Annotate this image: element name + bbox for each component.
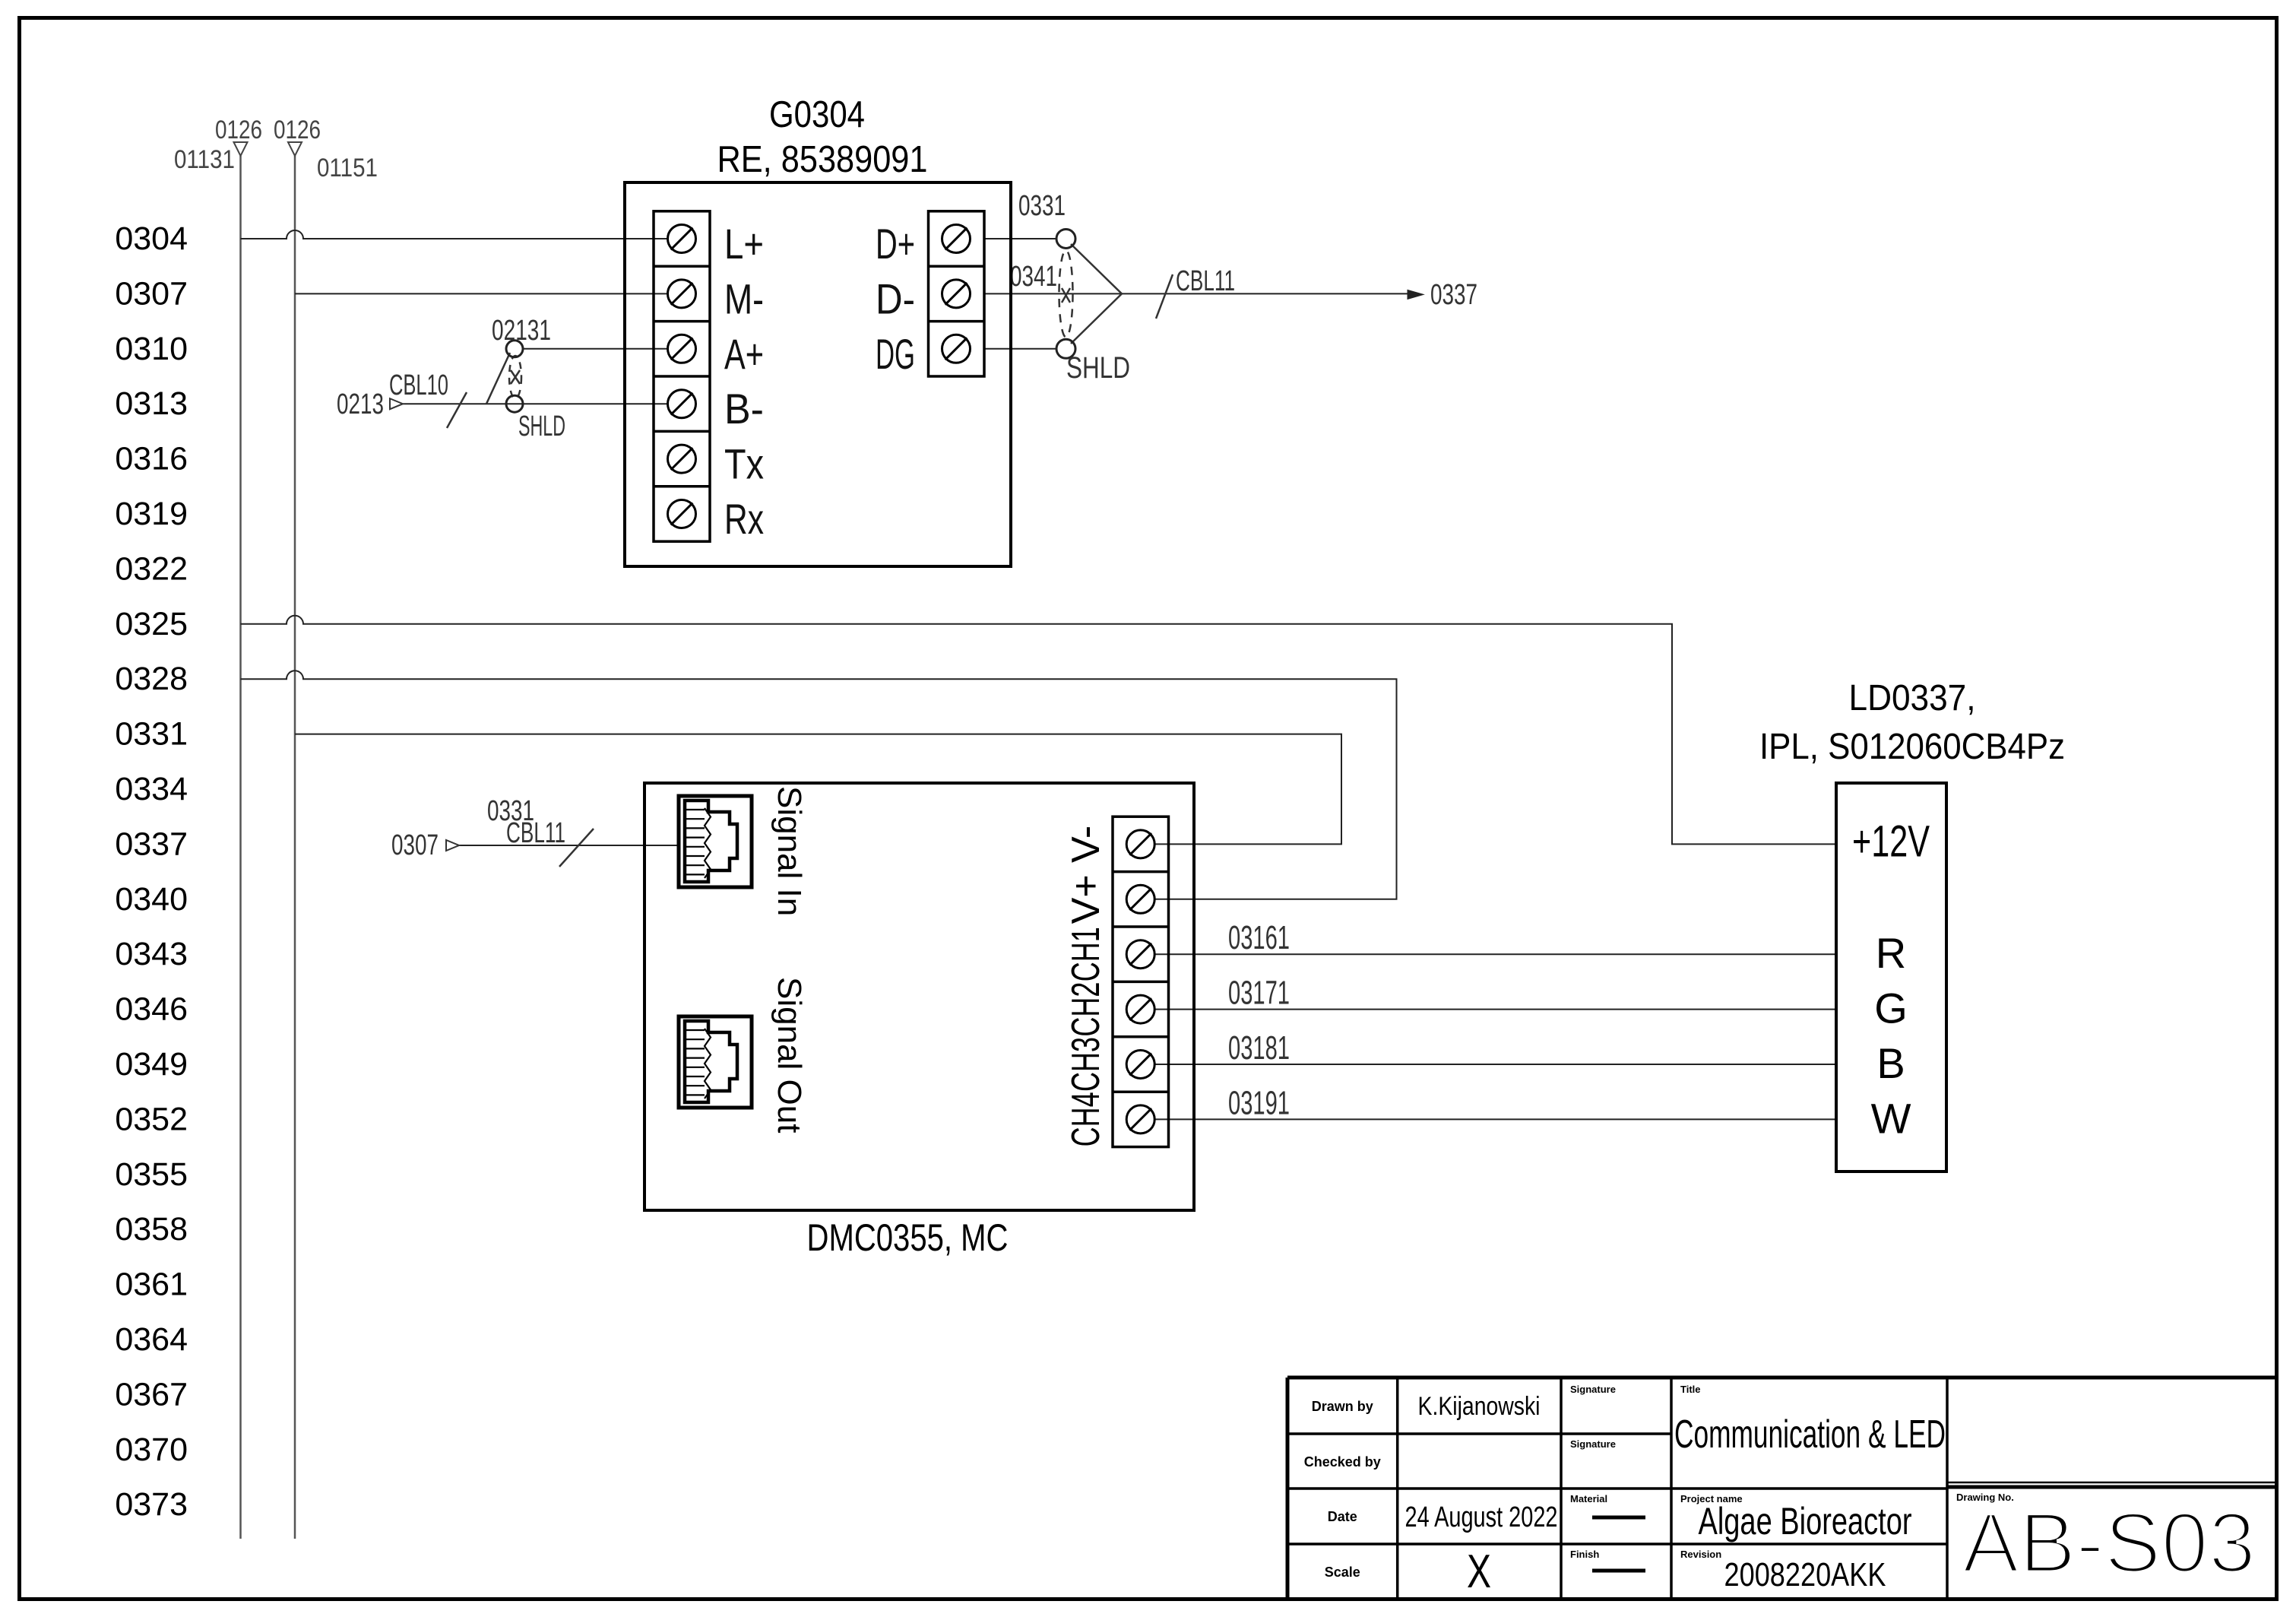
svg-text:Drawn by: Drawn by: [1312, 1399, 1373, 1414]
svg-text:CH2: CH2: [1064, 982, 1108, 1037]
svg-text:SHLD: SHLD: [518, 411, 565, 442]
svg-text:0337: 0337: [115, 826, 188, 862]
svg-text:Algae Bioreactor: Algae Bioreactor: [1699, 1500, 1912, 1542]
svg-text:0331: 0331: [1018, 190, 1066, 222]
svg-text:A+: A+: [724, 330, 764, 378]
svg-text:B-: B-: [724, 385, 764, 433]
svg-text:Checked by: Checked by: [1304, 1454, 1381, 1470]
svg-text:Signal In: Signal In: [771, 786, 808, 916]
svg-text:D-: D-: [876, 274, 915, 322]
svg-text:W: W: [1871, 1094, 1911, 1142]
svg-text:0373: 0373: [115, 1486, 188, 1523]
svg-text:0358: 0358: [115, 1211, 188, 1248]
svg-text:0322: 0322: [115, 550, 188, 587]
svg-text:0337: 0337: [1430, 279, 1477, 311]
svg-text:CBL10: CBL10: [389, 369, 448, 401]
svg-text:CBL11: CBL11: [1176, 265, 1235, 297]
svg-text:Signature: Signature: [1570, 1384, 1616, 1395]
svg-text:03191: 03191: [1228, 1084, 1290, 1121]
svg-text:Communication & LED: Communication & LED: [1674, 1412, 1946, 1457]
svg-text:K.Kijanowski: K.Kijanowski: [1418, 1392, 1541, 1421]
svg-text:0307: 0307: [391, 829, 439, 861]
svg-text:0346: 0346: [115, 991, 188, 1028]
svg-text:0325: 0325: [115, 606, 188, 642]
svg-text:IPL, S012060CB4Pz: IPL, S012060CB4Pz: [1759, 727, 2065, 767]
svg-text:SHLD: SHLD: [1066, 351, 1130, 385]
svg-text:0364: 0364: [115, 1321, 188, 1358]
svg-text:D+: D+: [876, 220, 915, 268]
svg-text:CH3: CH3: [1064, 1037, 1108, 1092]
svg-text:0126: 0126: [215, 116, 262, 144]
svg-text:0349: 0349: [115, 1046, 188, 1083]
svg-text:R: R: [1876, 929, 1906, 977]
svg-text:+12V: +12V: [1852, 816, 1930, 866]
svg-text:DMC0355, MC: DMC0355, MC: [807, 1216, 1009, 1259]
svg-text:M-: M-: [724, 274, 764, 322]
svg-text:Revision: Revision: [1680, 1549, 1721, 1560]
svg-text:Signature: Signature: [1570, 1438, 1616, 1450]
svg-text:CBL11: CBL11: [506, 817, 565, 849]
svg-text:CH1: CH1: [1064, 927, 1108, 981]
svg-text:CH4: CH4: [1064, 1092, 1108, 1146]
svg-text:0343: 0343: [115, 936, 188, 972]
svg-text:G: G: [1874, 984, 1908, 1032]
svg-text:Title: Title: [1680, 1384, 1701, 1395]
svg-text:0352: 0352: [115, 1101, 188, 1137]
svg-text:Finish: Finish: [1570, 1549, 1599, 1560]
svg-text:DG: DG: [876, 330, 915, 378]
svg-text:0334: 0334: [115, 771, 188, 807]
svg-text:0213: 0213: [337, 388, 384, 420]
svg-text:02131: 02131: [492, 315, 551, 347]
svg-text:X: X: [1467, 1546, 1491, 1598]
svg-text:0367: 0367: [115, 1376, 188, 1412]
svg-text:03181: 03181: [1228, 1029, 1290, 1067]
svg-text:Rx: Rx: [724, 495, 764, 543]
svg-text:0361: 0361: [115, 1267, 188, 1303]
svg-text:Material: Material: [1570, 1493, 1607, 1504]
svg-text:2008220AKK: 2008220AKK: [1724, 1556, 1886, 1593]
svg-text:Date: Date: [1328, 1509, 1357, 1524]
svg-text:03161: 03161: [1228, 919, 1290, 956]
svg-text:L+: L+: [724, 220, 764, 268]
svg-text:G0304: G0304: [769, 94, 865, 135]
svg-text:V+: V+: [1064, 874, 1108, 924]
svg-text:AB-S03: AB-S03: [1962, 1495, 2256, 1590]
svg-text:B: B: [1876, 1039, 1905, 1087]
svg-text:24 August 2022: 24 August 2022: [1405, 1501, 1558, 1533]
svg-text:0331: 0331: [115, 716, 188, 753]
svg-text:0126: 0126: [274, 116, 321, 144]
svg-text:Signal Out: Signal Out: [771, 977, 808, 1133]
svg-text:0341: 0341: [1010, 261, 1057, 293]
svg-text:0316: 0316: [115, 441, 188, 477]
svg-text:0355: 0355: [115, 1156, 188, 1193]
svg-text:0328: 0328: [115, 661, 188, 697]
svg-text:0304: 0304: [115, 220, 188, 257]
svg-text:0370: 0370: [115, 1432, 188, 1468]
svg-text:LD0337,: LD0337,: [1849, 678, 1976, 718]
svg-text:Scale: Scale: [1325, 1565, 1360, 1580]
svg-text:03171: 03171: [1228, 975, 1290, 1012]
svg-text:0313: 0313: [115, 385, 188, 422]
svg-text:Tx: Tx: [724, 440, 764, 488]
svg-text:V-: V-: [1064, 826, 1108, 863]
svg-text:0307: 0307: [115, 275, 188, 312]
svg-text:01131: 01131: [174, 145, 235, 174]
svg-text:0319: 0319: [115, 496, 188, 532]
svg-text:01151: 01151: [317, 154, 378, 182]
svg-text:RE, 85389091: RE, 85389091: [717, 139, 928, 180]
svg-text:0340: 0340: [115, 881, 188, 918]
svg-text:0310: 0310: [115, 331, 188, 367]
